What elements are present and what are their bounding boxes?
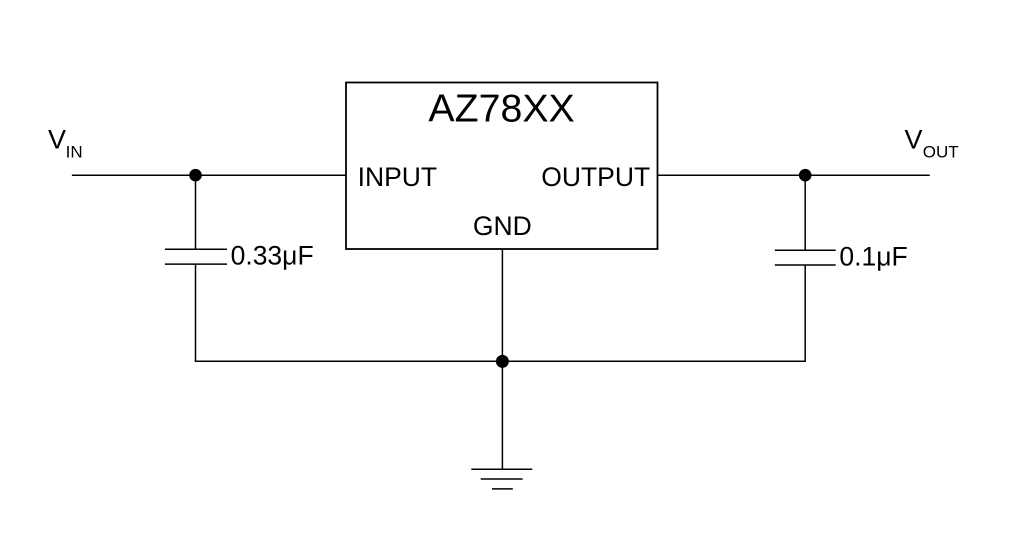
svg-text:OUTPUT: OUTPUT xyxy=(541,162,650,192)
svg-text:OUT: OUT xyxy=(923,142,959,161)
wire: ground rail xyxy=(195,360,806,362)
wire: GND pin down to ground symbol xyxy=(501,249,503,469)
pin label OUTPUT xyxy=(541,162,650,192)
pin label INPUT xyxy=(358,162,438,192)
svg-text:AZ78XX: AZ78XX xyxy=(428,87,574,131)
capacitor C2 plates xyxy=(775,250,836,265)
regulator U1 label AZ78XX xyxy=(428,87,574,131)
pin label GND xyxy=(473,211,532,241)
svg-text:0.33μF: 0.33μF xyxy=(231,241,314,271)
wire: VIN to INPUT pin xyxy=(72,174,346,176)
wire: C1 bottom plate down to ground rail xyxy=(195,264,197,361)
wire: input node down to C1 top plate xyxy=(195,175,197,249)
svg-text:IN: IN xyxy=(66,142,83,161)
capacitor C2 value 0.1uF xyxy=(839,241,907,271)
node VOUT label xyxy=(905,125,959,162)
svg-text:GND: GND xyxy=(473,211,532,241)
svg-text:INPUT: INPUT xyxy=(358,162,438,192)
wire: C2 bottom plate down to ground rail xyxy=(804,265,806,361)
svg-text:V: V xyxy=(48,125,66,155)
junction dot at input node xyxy=(189,169,202,182)
svg-text:V: V xyxy=(905,125,923,155)
svg-text:0.1μF: 0.1μF xyxy=(839,241,907,271)
capacitor C1 value 0.33uF xyxy=(231,241,314,271)
junction dot at output node xyxy=(799,169,812,182)
wire: output node down to C2 top plate xyxy=(804,175,806,250)
node VIN label xyxy=(48,125,83,162)
junction dot at ground rail center xyxy=(496,355,509,368)
regulator U1 AZ78XX body xyxy=(346,83,658,250)
capacitor C1 plates xyxy=(165,249,227,264)
ground symbol xyxy=(471,469,532,489)
wire: OUTPUT pin to VOUT xyxy=(658,174,930,176)
